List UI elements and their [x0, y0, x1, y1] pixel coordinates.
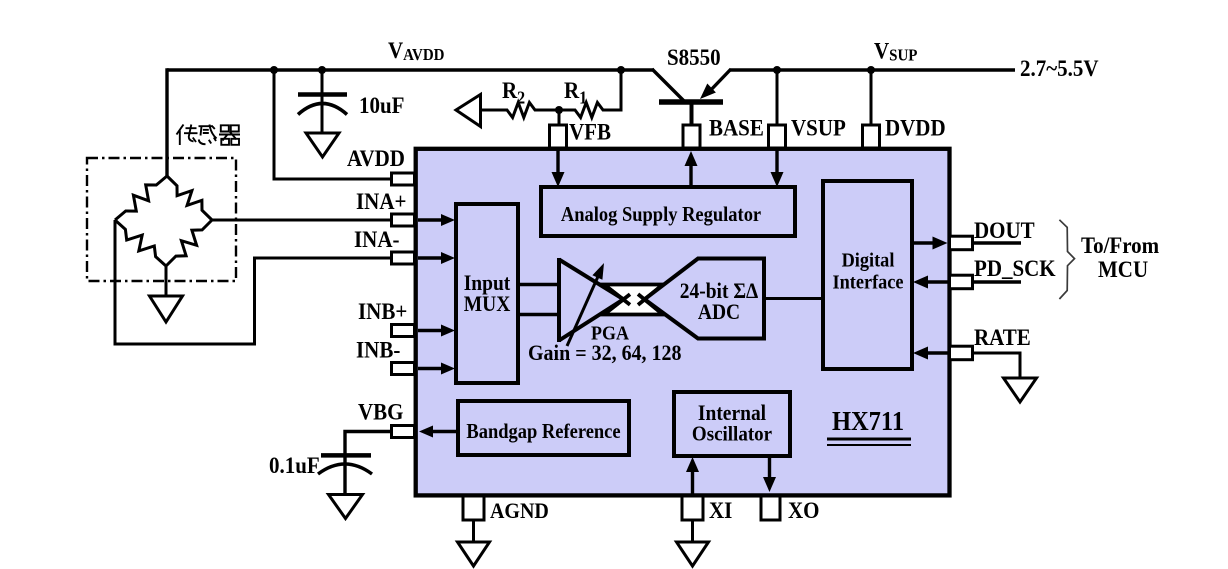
capacitor C2 curved plate — [318, 464, 372, 474]
pin RATE (right) — [950, 346, 973, 360]
node junction rail-R1 — [617, 66, 625, 74]
wire MUX to PGA upper — [518, 283, 560, 286]
wire INA- down from bridge left node — [114, 220, 117, 346]
svg-text:MCU: MCU — [1098, 256, 1148, 282]
svg-text:INA+: INA+ — [356, 188, 406, 214]
wire DOUT stub — [973, 241, 1021, 244]
wire R1 to riser — [607, 109, 623, 112]
ground below AGND — [458, 542, 490, 566]
svg-text:To/From: To/From — [1081, 232, 1160, 258]
ground below C1 — [306, 133, 339, 157]
brace To/From MCU — [1059, 220, 1074, 299]
pin INA- (left) — [392, 252, 415, 264]
block Digital Interface — [823, 181, 912, 369]
wire RATE stub and drop — [973, 353, 1020, 378]
arrow Digital Interface to DOUT — [912, 241, 933, 244]
dash-dot sensor box — [87, 158, 236, 281]
transistor Q1 base bar — [659, 99, 723, 105]
wire VFB node to pin — [558, 110, 561, 127]
node VFB junction — [555, 106, 563, 114]
svg-text:XI: XI — [709, 497, 732, 523]
svg-text:Oscillator: Oscillator — [692, 423, 772, 446]
ground below C2 — [329, 495, 363, 519]
svg-text:HX711: HX711 — [832, 406, 904, 437]
svg-text:RATE: RATE — [974, 324, 1031, 350]
wire V_SUP rail right segment — [730, 68, 1015, 71]
svg-text:INB-: INB- — [356, 336, 400, 362]
arrow INA- into MUX — [418, 256, 444, 259]
wire bridge right node to INA+ pin — [212, 219, 393, 222]
wire PD_SCK stub — [973, 280, 1021, 283]
svg-text:AVDD: AVDD — [347, 145, 405, 171]
pin XI (bottom) — [682, 496, 703, 520]
wire bridge bottom to ground — [165, 266, 168, 296]
wire riser to rail — [620, 70, 623, 112]
block Analog Supply Regulator — [541, 187, 795, 236]
pin VFB (top) — [550, 125, 567, 148]
wire DVDD drop — [870, 70, 873, 127]
IC body HX711 outline — [416, 149, 950, 496]
op-amp PGA triangle — [559, 258, 624, 342]
svg-text:XO: XO — [788, 497, 819, 523]
wire AGND to ground — [472, 520, 475, 542]
svg-text:AGND: AGND — [490, 498, 549, 523]
arrow VSUP into regulator — [775, 150, 778, 175]
wire arrow to R2 — [480, 109, 504, 112]
svg-text:ADC: ADC — [698, 301, 740, 324]
svg-text:DVDD: DVDD — [885, 114, 946, 140]
arrow XI into oscillator — [691, 470, 694, 494]
arrow RATE into Digital Interface — [926, 351, 948, 354]
arrow INA+ into MUX — [418, 218, 444, 221]
ground below XI — [677, 542, 709, 566]
wire Q1 base to BASE pin — [690, 102, 694, 127]
svg-text:Input: Input — [464, 272, 511, 295]
svg-text:Interface: Interface — [832, 272, 903, 294]
node junction rail-AVDD — [270, 66, 278, 74]
pin AVDD (left) — [392, 173, 415, 185]
svg-text:MUX: MUX — [464, 293, 511, 316]
svg-text:VAVDD: VAVDD — [388, 37, 445, 65]
svg-text:VBG: VBG — [358, 398, 403, 424]
pin BASE (top) — [683, 125, 700, 148]
pin VSUP (top) — [769, 125, 786, 148]
pin XO (bottom) — [761, 496, 780, 520]
svg-text:S8550: S8550 — [667, 44, 721, 70]
transistor Q1 emitter diagonal — [707, 69, 731, 94]
wire AVDD drop from rail to pin — [274, 70, 393, 179]
capacitor C2 top plate — [321, 453, 371, 458]
pin VBG (left) — [392, 426, 415, 438]
svg-text:R1: R1 — [564, 77, 587, 108]
bowtie crossing extensions — [604, 285, 663, 315]
label sensor 传感器 (drawn strokes) — [177, 125, 241, 146]
svg-text:R2: R2 — [502, 77, 525, 108]
arrow XO out of oscillator — [768, 456, 771, 478]
wire XI to ground — [691, 520, 694, 542]
svg-text:BASE: BASE — [709, 114, 764, 140]
arrow Bandgap to VBG pin — [432, 430, 458, 433]
reference arrow (open triangle) left of R2 — [456, 95, 481, 127]
pin AGND (bottom) — [463, 496, 484, 520]
svg-text:VSUP: VSUP — [791, 114, 846, 140]
svg-text:VFB: VFB — [569, 118, 611, 144]
bridge resistor bottom-right — [166, 220, 212, 266]
wire V_AVDD rail left segment — [167, 68, 654, 71]
svg-text:Digital: Digital — [842, 250, 895, 272]
block Internal Oscillator — [674, 392, 790, 456]
svg-text:VSUP: VSUP — [874, 37, 918, 65]
arrow INB- into MUX — [418, 367, 444, 370]
svg-text:0.1uF: 0.1uF — [269, 452, 320, 478]
pin DVDD (top) — [863, 125, 880, 148]
svg-text:INA-: INA- — [354, 226, 399, 252]
pin DOUT (right) — [950, 236, 973, 250]
block Input MUX — [456, 204, 518, 383]
transistor Q1 emitter arrow (PNP) — [700, 84, 716, 100]
svg-text:10uF: 10uF — [359, 92, 404, 118]
wire INA- bottom horizontal — [114, 343, 257, 346]
block Bandgap Reference — [458, 401, 629, 455]
capacitor C1 curved plate — [298, 104, 347, 115]
svg-text:Analog Supply Regulator: Analog Supply Regulator — [561, 203, 762, 226]
node junction rail-C1 — [318, 66, 326, 74]
resistor R2 — [503, 103, 539, 118]
wire INA- to pin — [253, 257, 393, 260]
pin INA+ (left) — [392, 214, 415, 226]
svg-text:24-bit ΣΔ: 24-bit ΣΔ — [680, 280, 759, 303]
pin INB- (left) — [392, 363, 415, 375]
ground below RATE — [1004, 378, 1037, 402]
wire R2 to VFB node — [539, 109, 573, 112]
svg-text:2.7~5.5V: 2.7~5.5V — [1020, 55, 1099, 81]
arrow INB+ into MUX — [418, 329, 444, 332]
svg-text:INB+: INB+ — [358, 298, 407, 324]
node junction rail-VSUP — [773, 66, 781, 74]
transistor Q1 collector diagonal — [652, 69, 684, 101]
pin PD_SCK (right) — [950, 275, 973, 289]
arrow BASE up from regulator — [689, 165, 692, 187]
arrow VFB into regulator — [556, 150, 559, 175]
svg-text:PD_SCK: PD_SCK — [974, 255, 1056, 281]
arrow PD_SCK into Digital Interface — [926, 280, 948, 283]
node junction rail-DVDD — [867, 66, 875, 74]
wire VSUP drop — [776, 70, 779, 127]
PGA gain arrow — [567, 272, 600, 346]
ground below bridge — [150, 296, 183, 322]
wire rail corner down to bridge top — [165, 68, 168, 176]
wire MUX to PGA lower — [518, 313, 560, 316]
bridge resistor top-right — [167, 176, 212, 220]
wire rail to C1 through plates — [321, 70, 324, 134]
bridge resistor top-left — [115, 176, 167, 220]
wire ADC to Digital Interface — [762, 297, 823, 300]
svg-text:DOUT: DOUT — [974, 217, 1035, 243]
white connector hexagon between PGA and ADC — [604, 285, 663, 315]
capacitor C1 top plate — [298, 92, 347, 97]
svg-text:Bandgap Reference: Bandgap Reference — [466, 420, 620, 443]
resistor R1 — [571, 103, 607, 118]
wire INA- riser — [253, 257, 256, 346]
pin INB+ (left) — [392, 325, 415, 337]
wire VBG to C2 through plates — [345, 432, 393, 496]
bridge resistor bottom-left — [115, 220, 166, 266]
ADC polygon 24-bit sigma-delta — [645, 259, 765, 339]
svg-text:Gain = 32, 64, 128: Gain = 32, 64, 128 — [528, 340, 682, 365]
